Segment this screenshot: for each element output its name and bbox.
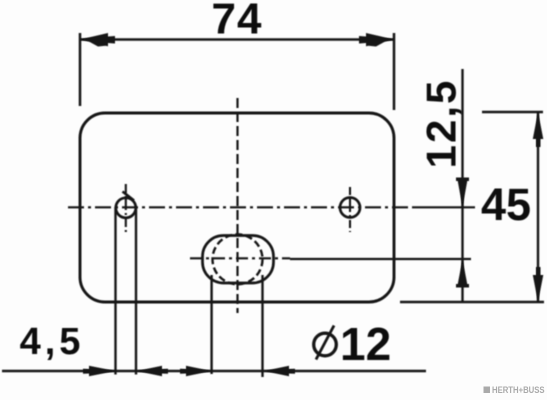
svg-text:74: 74 (212, 0, 263, 44)
svg-text:HERTH+BUSS: HERTH+BUSS (492, 386, 545, 396)
svg-text:4,5: 4,5 (20, 321, 85, 363)
svg-text:12: 12 (340, 318, 391, 370)
svg-text:12,5: 12,5 (418, 79, 465, 169)
svg-text:45: 45 (481, 179, 531, 230)
